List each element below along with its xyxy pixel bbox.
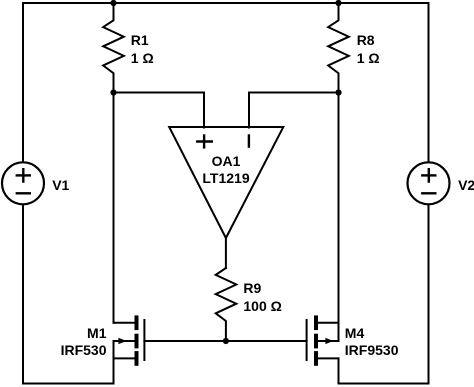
wire M4 drain to bottom rail	[338, 358, 340, 383]
wire R1 node to M1 drain	[113, 93, 115, 323]
wire op-amp output to R9	[225, 237, 227, 268]
wire left rail V1 top	[22, 3, 24, 162]
svg-text:OA1: OA1	[212, 153, 241, 169]
node: R8 top junction	[335, 0, 341, 6]
wire gate bus M1 to M4	[144, 340, 306, 342]
voltage source V1	[2, 162, 44, 204]
wire R8 node to M4 source	[338, 93, 340, 342]
voltage source V2	[408, 162, 450, 204]
op-amp - input mark	[248, 134, 250, 148]
svg-text:V1: V1	[52, 177, 69, 193]
wire V2 bottom to bottom-right rail	[339, 205, 429, 384]
wire top rail	[23, 2, 429, 4]
svg-text:M1: M1	[87, 325, 107, 341]
svg-text:IRF9530: IRF9530	[345, 342, 399, 358]
svg-text:IRF530: IRF530	[61, 342, 107, 358]
svg-text:R1: R1	[131, 32, 149, 48]
node: R8 bottom junction	[335, 89, 341, 95]
svg-text:1 Ω: 1 Ω	[357, 50, 380, 66]
transistor M1	[114, 315, 145, 365]
wire R8 node to op-amp - input	[249, 93, 339, 128]
svg-text:R8: R8	[357, 32, 375, 48]
op-amp + input mark	[196, 134, 213, 148]
svg-text:R9: R9	[243, 280, 261, 296]
node: R1 top junction	[110, 0, 116, 6]
svg-text:M4: M4	[345, 325, 365, 341]
svg-text:LT1219: LT1219	[202, 170, 249, 186]
svg-text:100 Ω: 100 Ω	[243, 298, 281, 314]
resistor R8	[328, 3, 349, 93]
node: R9 output junction	[223, 338, 229, 344]
op-amp OA1 triangle	[169, 127, 283, 238]
transistor M4	[307, 315, 339, 365]
node: R1 bottom junction	[110, 89, 116, 95]
resistor R9	[216, 268, 237, 341]
resistor R1	[103, 3, 124, 93]
svg-text:V2: V2	[458, 177, 474, 193]
wire right rail V2 top	[428, 3, 430, 162]
wire M1 source to bottom rail	[113, 341, 115, 384]
wire V1 bottom to bottom-left rail	[23, 205, 114, 384]
svg-text:1 Ω: 1 Ω	[131, 50, 154, 66]
wire R1 node to op-amp + input	[114, 93, 205, 128]
